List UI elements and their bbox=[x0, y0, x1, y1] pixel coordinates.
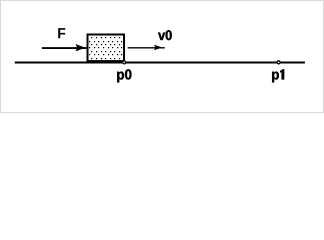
label v0 bbox=[158, 30, 172, 40]
label F bbox=[58, 28, 65, 38]
point p0 bbox=[123, 61, 126, 64]
point p1 bbox=[277, 61, 280, 64]
label p0 bbox=[117, 69, 131, 82]
force arrow F bbox=[42, 44, 87, 51]
block bottom edge bbox=[87, 60, 126, 62]
frame border bbox=[1, 1, 324, 113]
ground line bbox=[15, 61, 305, 63]
velocity arrow v0 bbox=[128, 45, 165, 50]
label p1 bbox=[272, 69, 284, 82]
block (box on ground) bbox=[88, 35, 125, 62]
